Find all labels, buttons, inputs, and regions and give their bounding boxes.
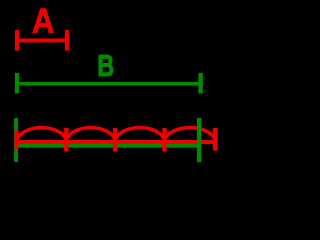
measured copy of B: left green end tick bbox=[14, 118, 18, 162]
compass arc 3 (third step of A) bbox=[115, 128, 164, 143]
red start tick bbox=[15, 130, 19, 149]
segment B line bbox=[15, 82, 203, 86]
svg-text:A: A bbox=[32, 2, 55, 41]
compass arc 1 (first step of A) bbox=[17, 128, 66, 143]
segment B left tick bbox=[15, 73, 19, 94]
segment B right tick bbox=[198, 73, 202, 94]
red step tick 3 bbox=[162, 128, 166, 152]
segment A left tick bbox=[15, 30, 19, 51]
compass arc 4 (fourth step of A) bbox=[165, 128, 216, 143]
segment A right tick bbox=[65, 30, 69, 51]
label A bbox=[32, 2, 55, 41]
measured copy of B: right green end tick bbox=[197, 118, 201, 162]
label B bbox=[97, 48, 114, 83]
svg-text:B: B bbox=[97, 48, 114, 83]
segment A line bbox=[15, 39, 69, 43]
compass arc 2 (second step of A) bbox=[66, 128, 115, 143]
measured copy of B: green base line bbox=[14, 144, 201, 148]
red measuring line bbox=[15, 140, 218, 144]
red step tick 1 bbox=[64, 128, 68, 152]
red step tick 2 bbox=[113, 128, 117, 152]
red end tick (overshoot mark) bbox=[213, 128, 218, 151]
